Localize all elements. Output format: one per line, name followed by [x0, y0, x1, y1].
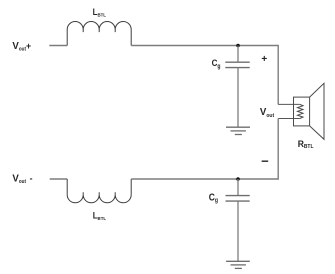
- node Vout+ label: [12, 41, 31, 53]
- wire right vertical lower (speaker bottom stub down to corner): [277, 119, 279, 180]
- capacitor C2 bottom lead: [237, 201, 239, 261]
- capacitor C1 top lead: [237, 46, 239, 62]
- junction node top: [236, 44, 240, 48]
- svg-text:−: −: [261, 154, 269, 169]
- speaker horn: [310, 83, 324, 139]
- resistor zigzag inside speaker: [298, 104, 304, 118]
- wire right vertical upper (corner down to speaker top stub): [277, 45, 279, 105]
- svg-text:+: +: [261, 54, 267, 65]
- wire top-left from Vout+ to inductor: [49, 45, 67, 47]
- node Vout- label: [12, 173, 32, 185]
- label C_g (top): [212, 58, 221, 70]
- junction node bottom: [236, 177, 240, 181]
- label Vout (speaker): [260, 107, 275, 119]
- wire stub speaker top: [278, 103, 300, 105]
- wire bottom-left from Vout- to inductor: [50, 178, 67, 180]
- inductor L1 (top L_BTL): [67, 22, 131, 46]
- label C_g (bottom): [209, 192, 219, 204]
- label L_BTL (top): [93, 7, 106, 18]
- capacitor C1 bottom lead: [237, 68, 239, 127]
- capacitor C2 (bottom C_g) plates: [226, 196, 250, 202]
- capacitor C2 top lead: [237, 179, 239, 195]
- speaker box R_BTL: [294, 97, 310, 126]
- ground (top): [226, 127, 250, 134]
- capacitor C1 (top C_g) plates: [225, 62, 249, 67]
- wire stub speaker bottom: [278, 118, 300, 120]
- label R_BTL: [298, 138, 315, 150]
- label L_BTL (bottom): [93, 210, 106, 221]
- wire bottom horizontal to right corner: [131, 178, 278, 180]
- inductor L2 (bottom L_BTL): [67, 179, 131, 203]
- wire top horizontal to right corner: [131, 45, 278, 47]
- ground (bottom): [226, 261, 250, 268]
